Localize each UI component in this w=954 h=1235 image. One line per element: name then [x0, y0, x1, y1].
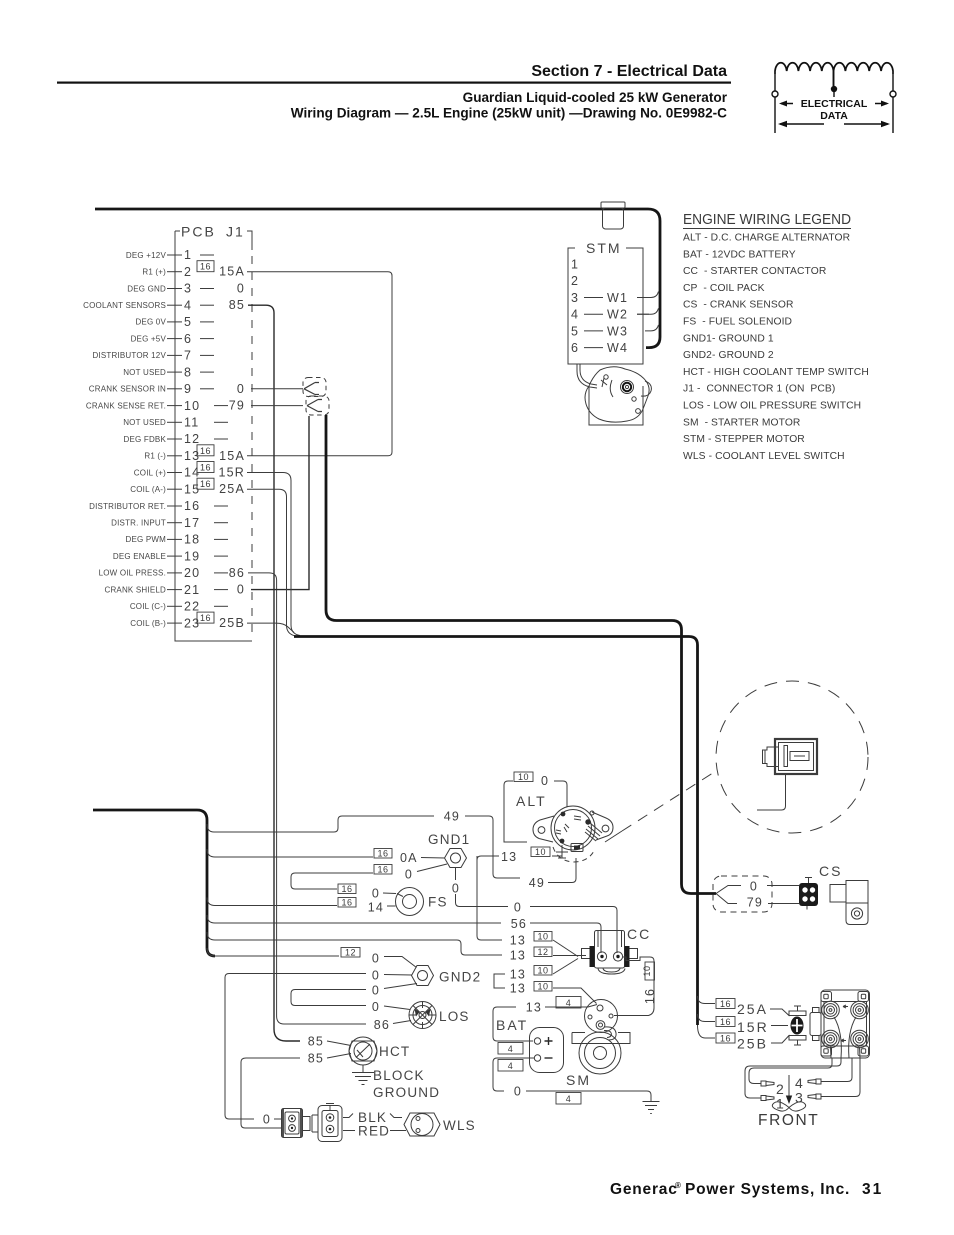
- wire 85 to HCT: [327, 1041, 351, 1046]
- svg-text:DEG +12V: DEG +12V: [126, 251, 167, 260]
- STM connector box: [568, 248, 643, 364]
- stepper motor mounting plate: [589, 386, 643, 425]
- wire 25A pin15 down: [247, 489, 296, 636]
- svg-text:R1 (+): R1 (+): [142, 268, 166, 277]
- spade terminal 2: [761, 1081, 774, 1086]
- svg-text:10: 10: [642, 965, 652, 976]
- box 16 on GND1 0 wire: [374, 865, 392, 875]
- CC terminal studs: [597, 952, 606, 961]
- BLK wire segs: [343, 1114, 402, 1118]
- svg-text:J1: J1: [226, 224, 245, 240]
- HCT ground stem: [362, 1065, 364, 1072]
- CP wire to terminal 4: [821, 1058, 852, 1082]
- svg-text:DEG +5V: DEG +5V: [131, 334, 167, 343]
- svg-text:16: 16: [643, 988, 657, 1004]
- svg-text:0: 0: [452, 882, 460, 896]
- svg-text:10: 10: [184, 399, 200, 413]
- svg-text:8: 8: [184, 365, 192, 379]
- crank pair connector housing upper: [303, 378, 329, 416]
- svg-text:9: 9: [184, 382, 192, 396]
- wire 25B pin23: [247, 623, 294, 632]
- svg-text:NOT USED: NOT USED: [123, 418, 166, 427]
- box 10 row3: [534, 966, 552, 976]
- ALT terminal T: [556, 845, 568, 858]
- svg-text:25A: 25A: [737, 1001, 768, 1017]
- svg-text:10: 10: [518, 772, 529, 782]
- svg-text:HCT - HIGH COOLANT TEMP SWITCH: HCT - HIGH COOLANT TEMP SWITCH: [683, 367, 869, 378]
- stepper motor bolt holes: [604, 375, 608, 379]
- svg-text:13: 13: [510, 968, 526, 982]
- SM solenoid: [572, 1000, 630, 1075]
- HCT high coolant temp switch: [349, 1041, 377, 1061]
- BAT-SM-AREA: [493, 997, 660, 1114]
- box 16 on FS 0 wire: [338, 884, 356, 894]
- svg-text:BAT - 12VDC BATTERY: BAT - 12VDC BATTERY: [683, 249, 796, 260]
- svg-text:85: 85: [308, 1035, 324, 1049]
- svg-text:25B: 25B: [219, 616, 245, 630]
- svg-text:GND2- GROUND 2: GND2- GROUND 2: [683, 350, 774, 361]
- svg-text:DEG FDBK: DEG FDBK: [124, 435, 167, 444]
- svg-text:®: ®: [675, 1181, 681, 1190]
- box 4 on plus wire: [498, 1043, 523, 1055]
- svg-text:86: 86: [374, 1018, 390, 1032]
- svg-text:49: 49: [529, 876, 545, 890]
- fan symbol: [772, 1102, 805, 1111]
- svg-text:12: 12: [537, 947, 548, 957]
- wire 85 row2 to HCT: [327, 1054, 351, 1059]
- svg-text:DEG ENABLE: DEG ENABLE: [113, 552, 166, 561]
- svg-text:DISTR. INPUT: DISTR. INPUT: [111, 519, 166, 528]
- detail connector wire: [757, 774, 786, 810]
- block ground symbol: [352, 1073, 374, 1085]
- CP wire to terminal 3: [821, 1058, 860, 1097]
- svg-text:6: 6: [184, 332, 192, 346]
- svg-text:13: 13: [510, 982, 526, 996]
- BUS-AREA: [93, 810, 617, 1142]
- bus branch wire 14 FS: [207, 898, 337, 906]
- J1 pin 3 DEG GND: [127, 282, 245, 296]
- wire 13 row1 diag to CC: [553, 940, 578, 957]
- upper arrows: [778, 101, 890, 128]
- CS leads to plug: [767, 886, 799, 904]
- svg-text:FRONT: FRONT: [758, 1112, 819, 1129]
- BAT minus terminal: [534, 1055, 540, 1061]
- svg-text:5: 5: [184, 315, 192, 329]
- svg-text:0: 0: [237, 583, 245, 597]
- svg-text:31: 31: [862, 1181, 883, 1198]
- svg-text:CRANK SENSE RET.: CRANK SENSE RET.: [86, 401, 166, 410]
- wire shield 0 pin21 up to pair: [251, 416, 309, 590]
- CS dashed connector housing: [713, 876, 772, 912]
- wire 0 to WLS plug: [274, 1118, 281, 1120]
- J1 pin 12 DEG FDBK: [124, 432, 229, 446]
- J1 pin 6 DEG +5V: [131, 332, 214, 346]
- STM lead to motor: [577, 364, 597, 388]
- svg-text:25B: 25B: [737, 1036, 768, 1052]
- alternator body: [533, 806, 613, 862]
- svg-text:16: 16: [377, 849, 388, 859]
- J1 pin 5 DEG 0V: [135, 315, 214, 329]
- WLS sensor hex: [404, 1113, 440, 1136]
- spade terminal 4: [808, 1079, 821, 1084]
- svg-text:79: 79: [747, 896, 763, 910]
- STM pin 4 dash: [584, 313, 603, 315]
- box 10 rotated on CC-SM wire: [645, 962, 655, 980]
- svg-text:4: 4: [571, 308, 579, 322]
- svg-text:HCT: HCT: [379, 1044, 410, 1059]
- svg-text:3: 3: [184, 282, 192, 296]
- svg-text:16: 16: [341, 898, 352, 908]
- wire row2 to hex: [384, 974, 412, 977]
- detail connector slot: [790, 752, 809, 761]
- svg-text:LOW OIL PRESS.: LOW OIL PRESS.: [99, 569, 166, 578]
- CP-AREA: [698, 990, 870, 1129]
- coil harness bundle to CP: [294, 637, 698, 1026]
- svg-text:0: 0: [514, 1085, 522, 1099]
- CP wire to terminal 1: [745, 1058, 841, 1098]
- legend underline: [683, 228, 851, 230]
- alternator inner details: [561, 812, 566, 817]
- PCB-CONNECTOR: [83, 224, 252, 642]
- svg-text:16: 16: [184, 499, 200, 513]
- wire 13 row4 to SM solenoid: [553, 988, 597, 1004]
- svg-text:WLS: WLS: [443, 1118, 476, 1133]
- wire crank pair down: [326, 415, 716, 894]
- svg-text:CC - STARTER CONTACTOR: CC - STARTER CONTACTOR: [683, 266, 826, 277]
- svg-text:16: 16: [720, 1017, 731, 1027]
- wire 25A to plug: [770, 1009, 790, 1016]
- svg-text:COIL (C-): COIL (C-): [130, 602, 166, 611]
- MIDWIRES: [247, 272, 716, 1041]
- CP tower 2: [851, 1001, 869, 1019]
- coil lead 15R from bundle: [698, 1014, 716, 1022]
- svg-text:Power Systems, Inc.: Power Systems, Inc.: [685, 1181, 850, 1198]
- CC right wire to SM solenoid: [614, 957, 654, 1016]
- wire 25B to plug: [771, 1035, 790, 1043]
- SM band: [572, 1033, 630, 1044]
- CP inner outline: [824, 1002, 867, 1047]
- svg-text:STM: STM: [586, 240, 622, 256]
- wire 0A to GND1: [421, 857, 445, 860]
- left coil: [775, 63, 834, 86]
- wire 13 to ALT: [477, 856, 499, 860]
- ground symbol SM: [643, 1102, 660, 1114]
- W1 wire to harness: [637, 292, 659, 298]
- detail connector plug profile: [763, 747, 779, 767]
- CS-AREA: [713, 863, 868, 925]
- STM pin 6 dash: [584, 347, 603, 349]
- svg-text:GND1: GND1: [428, 832, 470, 847]
- svg-text:GND1- GROUND 1: GND1- GROUND 1: [683, 333, 774, 344]
- svg-text:4: 4: [184, 298, 192, 312]
- svg-text:PCB: PCB: [181, 224, 216, 240]
- CP corner tabs: [821, 992, 832, 1002]
- detail balloon dashed circle: [716, 681, 868, 833]
- svg-text:22: 22: [184, 600, 200, 614]
- harness bus main wire: [93, 810, 215, 956]
- svg-text:1: 1: [571, 258, 579, 272]
- GND2 hex: [412, 966, 434, 986]
- svg-text:R1 (-): R1 (-): [144, 452, 166, 461]
- svg-text:4: 4: [566, 998, 572, 1008]
- FS fuel solenoid symbol: [396, 888, 424, 916]
- svg-text:16: 16: [341, 884, 352, 894]
- legend entries: [683, 233, 869, 462]
- right coil: [834, 63, 894, 86]
- svg-text:Section 7 - Electrical Data: Section 7 - Electrical Data: [531, 63, 727, 80]
- svg-text:16: 16: [720, 1034, 731, 1044]
- CP center arrows: [841, 1005, 848, 1042]
- GND1 stem: [455, 868, 457, 880]
- svg-text:ENGINE WIRING LEGEND: ENGINE WIRING LEGEND: [683, 212, 851, 228]
- wire 85 row2 left to WLS plug: [241, 1058, 300, 1128]
- U wire 0 to GND1: [291, 873, 373, 889]
- STM pin4 tick: [637, 313, 649, 315]
- stepper motor body: [585, 367, 649, 422]
- svg-text:0: 0: [372, 984, 380, 998]
- J1 pin 10 CRANK SENSE RET.: [86, 399, 245, 413]
- svg-text:DEG 0V: DEG 0V: [135, 318, 166, 327]
- svg-text:DATA: DATA: [820, 110, 848, 122]
- bracket rows3-4: [494, 974, 505, 988]
- svg-text:ALT - D.C. CHARGE ALTERNATOR: ALT - D.C. CHARGE ALTERNATOR: [683, 233, 850, 244]
- box 4 on minus wire: [498, 1060, 523, 1072]
- wire 0 pin9 to pair connector: [251, 388, 303, 390]
- bus branch wire 0 GND2 row1: [207, 948, 339, 956]
- svg-text:0: 0: [405, 868, 413, 882]
- coil lead 25B from bundle: [698, 1025, 716, 1038]
- balloon pointer line: [605, 831, 622, 842]
- svg-text:RED: RED: [358, 1124, 390, 1139]
- vertical 13 link ALT to CC: [477, 856, 502, 940]
- bus branch wire 49: [207, 816, 434, 832]
- wire 86 pin20 down: [248, 573, 366, 1024]
- inline connector on top wire: [601, 202, 625, 229]
- wire 79 pin10 to pair connector: [251, 405, 303, 407]
- svg-text:W1: W1: [607, 291, 628, 305]
- W3 wire to harness: [645, 325, 659, 331]
- svg-text:WLS - COOLANT LEVEL SWITCH: WLS - COOLANT LEVEL SWITCH: [683, 451, 845, 462]
- svg-text:13: 13: [526, 1001, 542, 1015]
- svg-text:16: 16: [377, 865, 388, 875]
- svg-text:ALT: ALT: [516, 793, 547, 809]
- wire 0 GND2 row2 with WLS feed: [225, 974, 366, 1120]
- svg-text:85: 85: [229, 298, 245, 312]
- left terminal circle: [772, 91, 778, 97]
- wire 49 to ALT terminal: [548, 858, 576, 883]
- CP coil pack body: [821, 990, 870, 1058]
- CP harness plug: [789, 1006, 806, 1046]
- J1 pin 21 CRANK SHIELD: [104, 583, 245, 597]
- svg-text:10: 10: [537, 932, 548, 942]
- box 10 row4: [534, 982, 552, 992]
- alternator lower dashed arc: [553, 847, 595, 862]
- svg-text:49: 49: [444, 810, 460, 824]
- svg-text:0: 0: [372, 969, 380, 983]
- svg-text:86: 86: [229, 566, 245, 580]
- wire 14 to FS: [387, 905, 396, 907]
- svg-text:LOS - LOW OIL PRESSURE SWITCH: LOS - LOW OIL PRESSURE SWITCH: [683, 401, 861, 412]
- svg-text:16: 16: [200, 463, 211, 473]
- wire minus to ground row: [493, 1058, 534, 1091]
- CS sensor body: [830, 881, 868, 925]
- svg-text:0: 0: [750, 880, 758, 894]
- svg-text:Generac: Generac: [610, 1181, 678, 1198]
- W2 wire to harness: [637, 308, 659, 314]
- detail connector drawing: [763, 739, 818, 774]
- header rule: [57, 82, 731, 84]
- svg-text:ELECTRICAL: ELECTRICAL: [801, 98, 868, 110]
- box 4 on 13 wire: [556, 997, 581, 1009]
- svg-text:BAT: BAT: [496, 1017, 528, 1033]
- svg-text:LOS: LOS: [439, 1009, 470, 1024]
- J1 pin 9 CRANK SENSOR IN: [89, 382, 245, 396]
- svg-text:COIL (B-): COIL (B-): [130, 619, 166, 628]
- svg-text:10: 10: [535, 847, 546, 857]
- TOPWIRE-STM: [95, 202, 660, 425]
- svg-text:CP - COIL PACK: CP - COIL PACK: [683, 283, 765, 294]
- svg-text:GND2: GND2: [439, 970, 481, 985]
- wire 85 pin4 down: [248, 305, 300, 1041]
- STM pin3 tick: [637, 297, 649, 299]
- stepper motor shaft boss: [621, 381, 634, 394]
- svg-text:CRANK SHIELD: CRANK SHIELD: [104, 585, 166, 594]
- wire 0 to FS: [383, 892, 396, 895]
- SM hook wire: [604, 1027, 616, 1040]
- svg-text:Guardian Liquid-cooled 25 kW G: Guardian Liquid-cooled 25 kW Generator: [463, 90, 728, 105]
- svg-text:0: 0: [514, 901, 522, 915]
- box 10 row1: [534, 932, 552, 942]
- J1 pin 1 DEG +12V: [126, 248, 214, 262]
- svg-text:FS: FS: [428, 895, 448, 910]
- wire 0 loop to ALT case: [504, 781, 527, 842]
- svg-text:COIL (A-): COIL (A-): [130, 485, 166, 494]
- BALLOON: [605, 681, 868, 842]
- svg-text:16: 16: [200, 479, 211, 489]
- right terminal circle: [890, 91, 896, 97]
- wire 0 to ground: [526, 1091, 651, 1101]
- J1 pin 11 NOT USED: [123, 416, 228, 430]
- svg-text:Wiring Diagram — 2.5L Engine (: Wiring Diagram — 2.5L Engine (25kW unit)…: [291, 106, 727, 121]
- J1 pin 14 COIL (+): [134, 462, 245, 480]
- svg-text:13: 13: [501, 850, 517, 864]
- svg-text:16: 16: [720, 999, 731, 1009]
- wire 56 to CC: [530, 923, 601, 953]
- J1 pin 19 DEG ENABLE: [113, 549, 228, 563]
- svg-text:W3: W3: [607, 324, 628, 338]
- wire 13 row3 diag to CC: [553, 959, 578, 975]
- U wire rows 3-4: [291, 990, 366, 1006]
- J1 pin 13 R1 (-): [144, 445, 245, 463]
- connector J1 box left edge: [175, 231, 252, 641]
- svg-text:DISTRIBUTOR RET.: DISTRIBUTOR RET.: [89, 502, 166, 511]
- svg-text:11: 11: [184, 416, 199, 430]
- CC-AREA: [582, 926, 658, 1016]
- wire 15R pin14 down: [247, 473, 300, 636]
- wire 15R to plug: [771, 1025, 788, 1027]
- svg-text:0: 0: [541, 774, 549, 788]
- box 12 GND2 row1: [341, 948, 360, 958]
- center tap dot: [831, 86, 837, 92]
- svg-text:0: 0: [372, 952, 380, 966]
- J1 pin 15 COIL (A-): [130, 478, 245, 496]
- CP inner wires: [831, 1017, 861, 1058]
- CC mounting ears: [582, 949, 638, 959]
- CP tower 3: [822, 1030, 840, 1048]
- svg-text:BLOCK: BLOCK: [373, 1068, 425, 1083]
- svg-text:85: 85: [308, 1052, 324, 1066]
- wire 13 right to solenoid: [545, 1005, 597, 1008]
- svg-text:GROUND: GROUND: [373, 1085, 440, 1100]
- CS plug black connector: [799, 877, 818, 910]
- svg-text:CRANK SENSOR IN: CRANK SENSOR IN: [89, 385, 166, 394]
- RED wire segs: [343, 1130, 406, 1132]
- CP wire to terminal 2: [749, 1058, 832, 1084]
- diag wire 0 to GND1 hex: [417, 864, 447, 872]
- svg-text:J1 - CONNECTOR 1 (ON PCB): J1 - CONNECTOR 1 (ON PCB): [683, 384, 835, 395]
- J1 pin 2 R1 (+): [142, 261, 245, 279]
- svg-text:6: 6: [571, 341, 579, 355]
- BAT battery outline: [530, 1028, 564, 1073]
- box 10 ALT 0 wire: [514, 772, 533, 782]
- svg-text:15A: 15A: [219, 265, 245, 279]
- BAT plus terminal: [534, 1038, 540, 1044]
- J1 pin 8 NOT USED: [123, 365, 214, 379]
- bus branch wire GND1 0A: [207, 849, 373, 857]
- svg-text:0: 0: [372, 887, 380, 901]
- svg-text:CC: CC: [627, 926, 651, 942]
- wire diag to GND2 hex: [384, 957, 417, 968]
- svg-text:19: 19: [184, 549, 200, 563]
- svg-text:DEG GND: DEG GND: [127, 284, 166, 293]
- lower double arrow: [780, 123, 824, 125]
- svg-text:STM - STEPPER MOTOR: STM - STEPPER MOTOR: [683, 434, 805, 445]
- svg-text:0: 0: [372, 1000, 380, 1014]
- box 4 on ground wire: [556, 1093, 581, 1105]
- J1 pin 20 LOW OIL PRESS.: [99, 566, 245, 580]
- alternator main circle: [551, 806, 595, 850]
- wire 0 to ALT top: [554, 781, 567, 807]
- svg-text:12: 12: [184, 432, 200, 446]
- svg-text:14: 14: [368, 901, 384, 915]
- WLS plug housing 1: [282, 1109, 311, 1138]
- wire row3 diag to hex: [384, 984, 417, 989]
- box 12 row2: [534, 947, 552, 957]
- svg-text:0: 0: [263, 1113, 271, 1127]
- wire 13 to ALT terminal: [552, 855, 562, 857]
- svg-text:56: 56: [511, 917, 527, 931]
- CS wire split chevron: [716, 886, 741, 904]
- svg-text:17: 17: [184, 516, 200, 530]
- box 16 25A: [716, 999, 735, 1009]
- svg-text:W2: W2: [607, 308, 628, 322]
- center tap stub: [833, 92, 835, 97]
- svg-text:15A: 15A: [219, 449, 245, 463]
- svg-text:21: 21: [184, 583, 200, 597]
- GND1 ground stud hex: [445, 849, 467, 868]
- wire 86 to LOS: [393, 1021, 411, 1024]
- STM pin 5 dash: [584, 330, 603, 332]
- wire row4 to LOS: [384, 1006, 410, 1010]
- front direction arrow: [788, 1075, 790, 1097]
- svg-text:20: 20: [184, 566, 200, 580]
- alternator left ear: [533, 816, 554, 842]
- svg-text:16: 16: [200, 446, 211, 456]
- alternator bottom terminal block: [571, 844, 583, 852]
- box 16 on 14 wire: [338, 898, 356, 908]
- svg-text:16: 16: [200, 613, 211, 623]
- svg-text:4: 4: [566, 1094, 572, 1104]
